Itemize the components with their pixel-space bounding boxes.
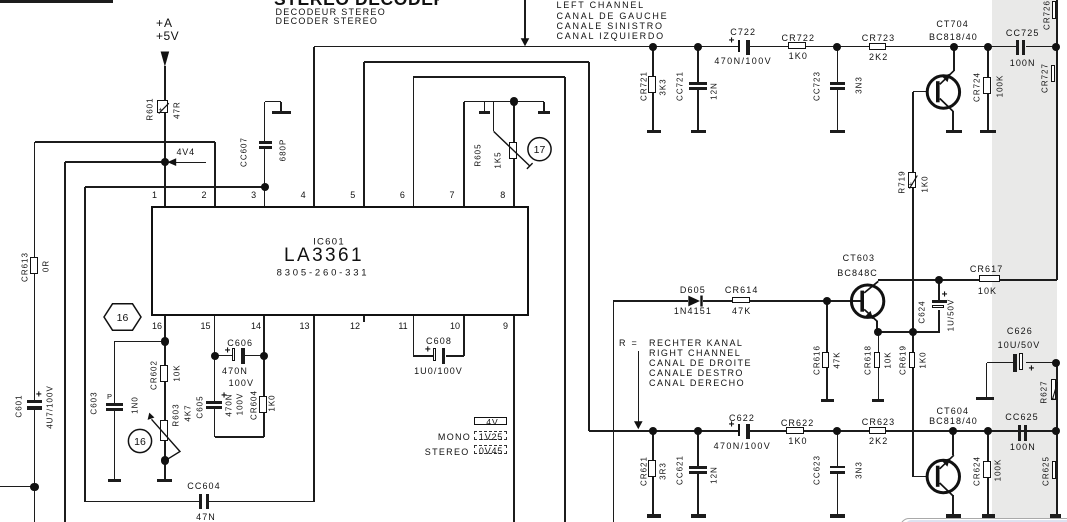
svg-text:16: 16 <box>134 436 146 448</box>
svg-text:17: 17 <box>534 144 546 156</box>
svg-text:+: + <box>909 180 914 189</box>
svg-text:+: + <box>1051 396 1055 403</box>
svg-text:+: + <box>159 105 164 114</box>
svg-text:16: 16 <box>117 312 129 324</box>
